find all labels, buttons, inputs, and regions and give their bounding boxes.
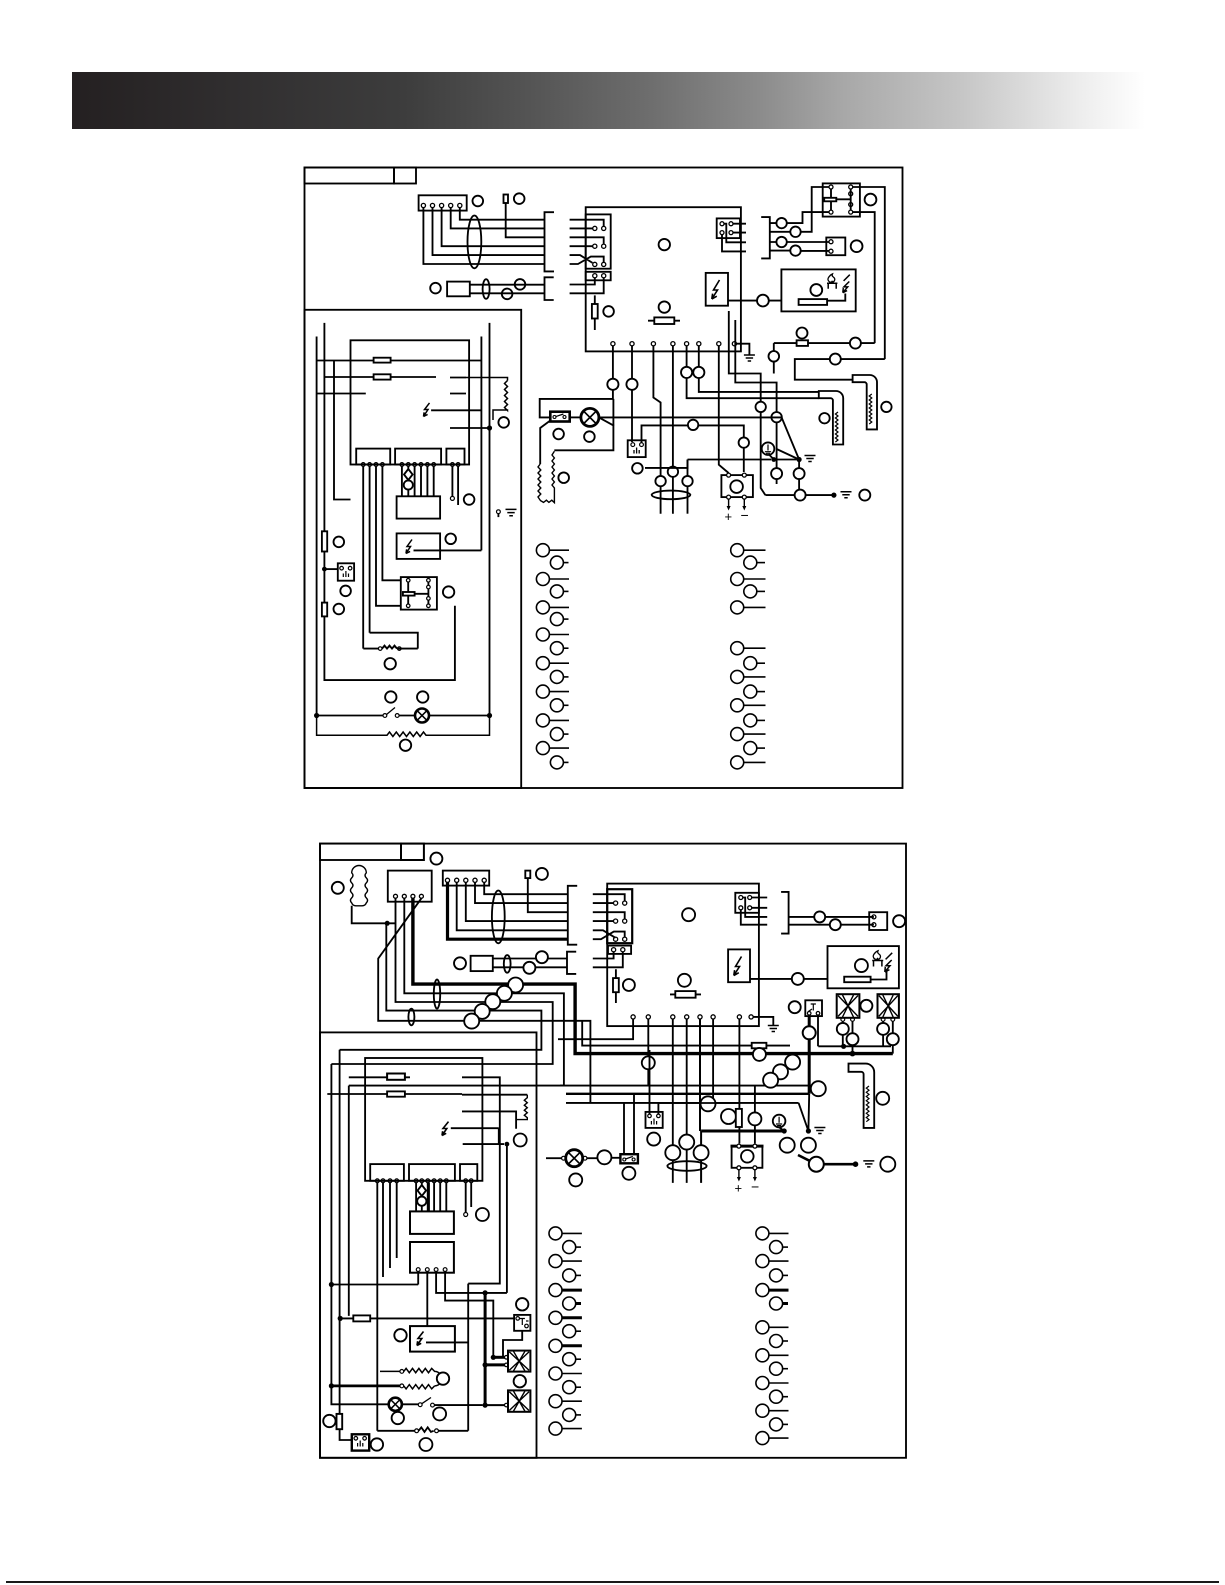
junction dot [385, 921, 390, 926]
fuse F3 on PCB [670, 993, 701, 995]
wire fuse to harness [528, 878, 568, 912]
CN3 stub wires [722, 224, 746, 252]
bolt icon [885, 953, 892, 972]
wire tab1 pin1 to bottom switch [376, 1183, 378, 1431]
callout circle [887, 1033, 899, 1045]
callout circle [433, 1407, 446, 1420]
wire gnd circle drop [779, 1127, 784, 1131]
pin [525, 1324, 529, 1328]
junction dot [491, 1355, 496, 1360]
legend right column [731, 544, 766, 769]
transformer output arrows [739, 1170, 755, 1178]
door monitor box mid [646, 1112, 663, 1128]
legend item [756, 1349, 769, 1362]
pin [593, 274, 597, 278]
legend item [536, 685, 549, 698]
legend right column [756, 1227, 789, 1445]
ground symbol [841, 492, 852, 498]
transformer output arrows [729, 499, 745, 507]
wire thermostat left [362, 648, 365, 650]
legend item [536, 628, 549, 641]
relay RY1 box [823, 183, 860, 216]
wire relay to right rail B [853, 212, 875, 343]
wire ground link drop [687, 460, 689, 514]
callout circle [814, 911, 825, 922]
wire pin7 drop to transformer [719, 346, 729, 473]
wire HV transformer line 1 [773, 343, 775, 373]
pin 1 [445, 878, 449, 882]
callout circle [515, 279, 526, 290]
callout circle [810, 284, 822, 296]
pin [807, 1012, 811, 1016]
callout circle [623, 979, 635, 991]
legend item [563, 1381, 576, 1394]
bottom switch row [377, 1427, 468, 1432]
stub line [317, 393, 366, 395]
legend item [756, 1284, 769, 1297]
cavity TCO resistor [466, 378, 508, 421]
wire bolt to right rail [431, 409, 481, 411]
legend item [744, 585, 757, 598]
heater A coil [835, 412, 838, 442]
magnetron filter coil [350, 866, 367, 906]
door switch box right [514, 1315, 530, 1331]
bracket CN3 mate [781, 892, 789, 934]
wire tab1 pin3 to relay [376, 466, 401, 605]
pin [829, 210, 833, 214]
pin [891, 1018, 895, 1022]
wire pin1 drop [558, 1019, 633, 1039]
wire lamp long right [599, 417, 799, 459]
junction dot [483, 1403, 488, 1408]
junction dot [483, 1290, 488, 1295]
pin [593, 226, 597, 230]
ground stub w/ pin [497, 510, 501, 514]
wire fan1 pin1 drop [842, 1021, 844, 1046]
legend item [536, 544, 549, 557]
pin [742, 473, 746, 477]
wire resistor to bolt [871, 972, 887, 980]
pin [354, 1437, 358, 1441]
pin [753, 1144, 757, 1148]
pin [631, 443, 635, 447]
legend item [731, 573, 744, 586]
connector block CN2 [607, 889, 632, 943]
connector block 2-pin [586, 272, 611, 281]
pin 5 [458, 203, 462, 207]
callout circle [558, 472, 569, 483]
pin [739, 896, 743, 900]
wire pin5 to harness [460, 208, 545, 220]
junction dot [831, 493, 836, 498]
pin [849, 210, 853, 214]
legend item [536, 601, 549, 614]
pin [640, 443, 644, 447]
legend item [756, 1404, 769, 1417]
pin [753, 1166, 757, 1170]
pin [623, 901, 627, 905]
callout circle [776, 218, 786, 228]
relay coil [824, 198, 836, 202]
bundle callout circle [485, 994, 500, 1009]
junction dot [771, 457, 776, 462]
wire lamp heater loop [540, 421, 550, 465]
pin [849, 192, 853, 196]
connector CN1 (5-pin) [443, 871, 489, 886]
legend item [756, 1227, 769, 1240]
bolt icon [734, 957, 742, 976]
interlock symbol [343, 571, 348, 577]
left sub-box [305, 310, 522, 788]
wire 2pin-2 [593, 952, 623, 968]
tab box 1 [356, 449, 390, 465]
wire ground dot drop [798, 460, 800, 496]
callout circle [748, 1112, 761, 1125]
callout circle [682, 908, 695, 921]
twisted pair to ground [799, 1094, 810, 1131]
pin [720, 222, 724, 226]
door sensing resistor [516, 1095, 527, 1120]
wire switch to fan rail [434, 1404, 482, 1406]
wire relay to right rail A [853, 187, 885, 359]
fuse F8 [353, 1315, 370, 1321]
relay unit B [397, 533, 441, 559]
pin [727, 473, 731, 477]
interlock symbol [520, 1319, 529, 1326]
legend item [731, 642, 744, 655]
junction dot [505, 1142, 510, 1147]
legend item [536, 742, 549, 755]
callout circle [334, 604, 345, 615]
outer enclosure box [320, 844, 906, 1458]
callout circle [569, 1173, 582, 1186]
cable tie ellipse [434, 979, 440, 1008]
wire unit B bolt line [414, 549, 482, 551]
wire rails to lamp area [560, 1085, 811, 1087]
pin [340, 566, 344, 570]
relay pins [406, 579, 430, 608]
bolt icon [712, 280, 720, 299]
wire w/ callout to relay [770, 212, 829, 223]
callout circle [847, 1033, 859, 1045]
legend item [563, 1269, 576, 1282]
legend item [549, 1367, 562, 1380]
bundle callout circle [497, 986, 512, 1001]
HV warning box on PCB [728, 949, 750, 982]
pin end circle [464, 1213, 468, 1217]
HV transformer T1 [721, 475, 753, 497]
pin 4 [473, 878, 477, 882]
wire tab1 pin2 to thermostat upper [369, 466, 371, 632]
door interlock box [338, 563, 354, 580]
callout circle [811, 1081, 826, 1096]
bundle callout circle [475, 1004, 490, 1019]
callout circle [893, 915, 905, 927]
legend item [549, 1339, 562, 1352]
pin [602, 244, 606, 248]
wire gnd-circle link [645, 460, 797, 468]
title box large [320, 844, 401, 860]
relay links [408, 582, 428, 604]
fuse F7 [387, 1091, 405, 1096]
callout circle [739, 437, 749, 447]
left rail 3 [348, 1086, 350, 1316]
pin [593, 262, 597, 266]
cavity lamp [415, 709, 429, 723]
bundle callout circle [464, 1014, 479, 1029]
thermal fuse line 2 [324, 376, 436, 378]
ground circle symbol [762, 442, 775, 455]
legend item [549, 1284, 562, 1297]
left rail 1 [316, 337, 318, 716]
callout circle [502, 289, 513, 300]
relay unit B [410, 1242, 454, 1273]
PCB main board [607, 884, 759, 1027]
pin [881, 1018, 885, 1022]
wire lamp to switch [402, 1403, 418, 1405]
legend item [536, 573, 549, 586]
pin [602, 274, 606, 278]
junction dot [782, 1128, 787, 1133]
cable tie ellipse [667, 1161, 706, 1171]
wire lamp to circle [587, 1157, 598, 1159]
callout circle [659, 239, 670, 250]
cable tie ellipse [504, 955, 511, 973]
pin [348, 566, 352, 570]
legend item [563, 1297, 576, 1310]
wire lamp left stub [546, 1157, 562, 1159]
wire twisted pair 1 [729, 311, 766, 495]
wire switch riser B [633, 1094, 635, 1154]
callout circle [514, 193, 525, 204]
callout circle [400, 740, 411, 751]
junction dot [797, 457, 802, 462]
callout circle [536, 868, 548, 880]
fuse F6 [374, 374, 391, 379]
ground symbol [805, 456, 816, 462]
callout circle [394, 1329, 406, 1341]
switch contacts [623, 1158, 626, 1161]
callout circle [809, 1157, 824, 1172]
callout circle [498, 417, 509, 428]
relay coil [403, 592, 415, 596]
burner stand icon [827, 283, 837, 289]
relay B pins [416, 1268, 447, 1272]
legend item [744, 685, 757, 698]
legend item [731, 728, 744, 741]
wire to aux box pin1 [770, 241, 829, 243]
pin [739, 906, 743, 910]
callout circle [642, 1056, 655, 1069]
cable tie ellipse [652, 491, 691, 500]
burner stand icon [872, 961, 883, 967]
heater element B [853, 375, 877, 429]
bold fan rail [484, 1293, 487, 1405]
wire tab1 stubs [383, 1183, 397, 1277]
relay unit A [397, 496, 441, 518]
cable tie ellipse [468, 216, 482, 269]
legend item [770, 1297, 783, 1310]
connector block 2-pin [608, 946, 631, 954]
pin [729, 231, 733, 235]
legend left column [549, 1227, 582, 1435]
legend item [744, 714, 757, 727]
right rail v [480, 337, 482, 551]
tab box 3 [460, 1164, 477, 1181]
fan motor FM2 [878, 994, 899, 1018]
wire fan2 pin1 drop [882, 1021, 884, 1046]
bolt icon [417, 1332, 424, 1346]
harness bracket left [545, 212, 555, 271]
callout circle [756, 402, 766, 412]
wire pin2 drop to interlock [631, 346, 633, 442]
wire bundle w5 diagonal [378, 898, 590, 1103]
ground symbol [506, 509, 517, 515]
lamp switch contacts [383, 714, 387, 718]
callout circle [437, 1372, 449, 1384]
wire fan2 pin2 drop [892, 1021, 894, 1053]
interlock symbol [808, 1004, 816, 1012]
junction dot [338, 1316, 343, 1321]
wire fan2 feed [485, 1404, 504, 1406]
callout circle [603, 306, 614, 317]
wire h3 [566, 1102, 799, 1104]
interlock monitor box [628, 440, 646, 457]
outer enclosure box [305, 168, 903, 789]
title box small [394, 168, 416, 184]
bold fan1 feeds [493, 1356, 504, 1359]
callout circle [859, 490, 870, 501]
pin [829, 240, 833, 244]
callout circle [445, 534, 456, 545]
legend item [756, 1377, 769, 1390]
wire pin1 drop to lamp switch [540, 346, 614, 426]
legend item [770, 1390, 783, 1403]
header gradient bar [72, 72, 1145, 129]
callout circle [417, 691, 428, 702]
PCB main board [586, 207, 741, 351]
wire coil bottom [352, 906, 396, 924]
legend item [563, 1353, 576, 1366]
callout circle [332, 882, 344, 894]
callout circle [880, 1157, 895, 1172]
callout circle [776, 237, 786, 247]
junction dot [853, 1161, 859, 1167]
switch contacts [418, 1403, 422, 1407]
callout circle [837, 1023, 849, 1035]
wire door switch bold drop [808, 1016, 811, 1094]
wire cavity to junction [450, 427, 490, 429]
connector block CN2 [586, 214, 611, 268]
wire pair upper [470, 284, 545, 286]
callout circle [473, 196, 484, 207]
callout circle [688, 420, 698, 430]
heater coil [866, 1086, 869, 1122]
callout circle [682, 476, 692, 486]
callout circle [785, 1055, 800, 1070]
wire pin2 to harness [433, 208, 545, 256]
left sub-box [320, 1032, 537, 1457]
wires tab2 pins to relay unit A [402, 466, 434, 496]
HV transformer T1 [732, 1146, 763, 1168]
wire tab3 pins down [452, 466, 458, 505]
legend item [536, 714, 549, 727]
resistor element [799, 299, 828, 305]
legend item [549, 1255, 562, 1268]
pin [400, 1384, 404, 1388]
legend item [731, 699, 744, 712]
sensor circle [404, 480, 413, 489]
HV warning box lower [410, 1326, 455, 1352]
wire tab1 pin1 to thermostat [362, 466, 364, 648]
pin [602, 226, 606, 230]
fuse F8 vertical [322, 603, 327, 617]
legend item [756, 1432, 769, 1445]
callout circle [819, 413, 829, 423]
thermostat switch [364, 646, 418, 649]
wire 2pin-1 [593, 952, 614, 959]
right stub lines [450, 361, 481, 394]
callout circle [679, 1135, 694, 1150]
legend item [770, 1269, 783, 1282]
lower harness bracket [545, 277, 554, 300]
callout circle [851, 240, 863, 252]
wires tab2 pins to relay unit A [416, 1183, 446, 1212]
flame icon [828, 274, 835, 282]
wire pair upper [493, 958, 567, 960]
wire fan link [818, 1045, 891, 1047]
callout circle [385, 691, 396, 702]
tab box 2 [409, 1164, 455, 1181]
ground symbol [863, 1161, 874, 1167]
fuse F3 on PCB [648, 320, 680, 322]
callout circle [323, 1415, 335, 1427]
fuse F6 [387, 1074, 405, 1080]
heater S-coil row2 bold feed [331, 1385, 399, 1388]
wire fan1 pin2 drop [852, 1021, 854, 1053]
aux 2-pin box [826, 238, 845, 256]
wire 2pin-2 [570, 278, 604, 294]
callout circle [801, 1138, 816, 1153]
wire pin2 drop [647, 1019, 649, 1086]
ignition unit box [828, 946, 899, 988]
legend left column [536, 544, 569, 769]
wire secondary to ground bold [798, 1155, 853, 1164]
pin 4 [449, 203, 453, 207]
thermal fuse line 2 [327, 1093, 462, 1095]
callout circle [443, 586, 454, 597]
wire transformer primary 2 [754, 1086, 756, 1144]
wire gnd circle to dot [770, 455, 774, 460]
callout circle [668, 467, 678, 477]
callout circle [514, 1134, 527, 1147]
lamp ballast heater U zigzag [538, 451, 554, 502]
wire HV box to ignition unit [728, 300, 781, 302]
pin [505, 1363, 509, 1367]
callout circle [514, 1375, 526, 1387]
legend item [550, 556, 563, 569]
callout circle [607, 379, 618, 390]
wire relay feed h [331, 1284, 418, 1286]
legend item [744, 556, 757, 569]
PCB bottom pins [631, 1015, 753, 1019]
legend item [549, 1395, 562, 1408]
wire rail B elbow to heater B [795, 359, 885, 380]
legend item [550, 642, 563, 655]
wire 2pin-1 [570, 278, 595, 285]
pin [394, 894, 398, 898]
callout circle [701, 1096, 716, 1111]
